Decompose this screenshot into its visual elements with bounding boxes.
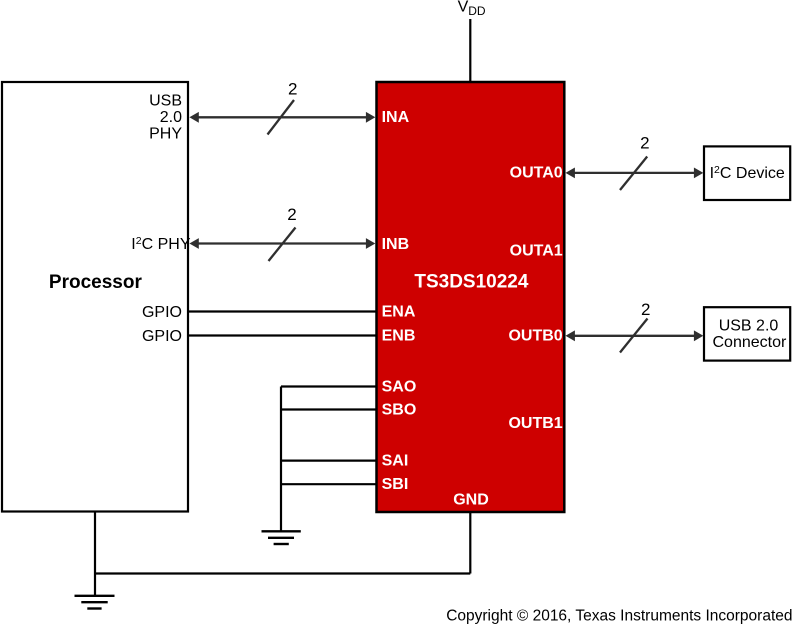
svg-text:Processor: Processor — [49, 272, 143, 293]
svg-text:OUTB1: OUTB1 — [508, 415, 562, 432]
svg-text:ENB: ENB — [382, 327, 416, 344]
wire OUTB0 bus arrow — [566, 330, 704, 341]
ground (main) — [75, 596, 115, 609]
wire OUTA0 bus arrow — [566, 168, 704, 179]
chip U1 TS3DS10224 — [377, 82, 565, 512]
USB connector block — [704, 307, 790, 360]
wire SAO — [281, 385, 377, 387]
svg-text:OUTB0: OUTB0 — [508, 328, 562, 345]
svg-text:2: 2 — [287, 205, 296, 224]
I2C device block — [704, 146, 790, 200]
svg-text:GPIO: GPIO — [142, 328, 182, 345]
svg-text:USB 2.0: USB 2.0 — [719, 318, 779, 335]
svg-text:SBI: SBI — [382, 476, 409, 493]
wire VDD to chip — [469, 19, 471, 82]
svg-text:GPIO: GPIO — [142, 304, 182, 321]
svg-text:SAI: SAI — [382, 453, 409, 470]
processor block — [2, 82, 188, 512]
bus slash INB — [269, 228, 296, 262]
svg-text:PHY: PHY — [149, 126, 182, 143]
svg-text:SBO: SBO — [382, 401, 417, 418]
wire INB bus arrow — [189, 238, 375, 249]
svg-text:OUTA1: OUTA1 — [510, 243, 563, 260]
svg-text:ENA: ENA — [382, 303, 416, 320]
svg-text:2: 2 — [640, 134, 649, 153]
bus slash INA — [268, 100, 295, 135]
wire ground bus horizontal — [95, 572, 470, 574]
svg-text:OUTA0: OUTA0 — [510, 165, 563, 182]
wire SAI — [281, 460, 377, 462]
svg-text:SAO: SAO — [382, 378, 417, 395]
wire ENA — [189, 310, 377, 312]
svg-text:USB: USB — [149, 92, 182, 109]
wire SBI — [281, 483, 377, 485]
wire INA bus arrow — [189, 112, 375, 123]
svg-text:TS3DS10224: TS3DS10224 — [414, 271, 529, 292]
ground (select pins) — [262, 531, 301, 544]
wire processor to ground — [94, 512, 96, 597]
wire ENB — [189, 334, 377, 336]
wire SBO — [281, 408, 377, 410]
bus slash OUTA0 — [620, 157, 647, 191]
svg-text:INA: INA — [382, 109, 410, 126]
svg-text:2.0: 2.0 — [160, 109, 182, 126]
wire chip GND down — [469, 512, 471, 574]
svg-text:Copyright © 2016, Texas Instru: Copyright © 2016, Texas Instruments Inco… — [446, 608, 792, 625]
svg-text:GND: GND — [453, 491, 489, 508]
svg-text:Connector: Connector — [712, 334, 786, 351]
wire select-pins to ground — [280, 387, 282, 532]
svg-text:I2C Device: I2C Device — [710, 164, 785, 182]
bus slash OUTB0 — [620, 319, 648, 353]
svg-text:INB: INB — [382, 236, 410, 253]
svg-text:2: 2 — [641, 300, 650, 319]
svg-text:2: 2 — [288, 80, 297, 99]
